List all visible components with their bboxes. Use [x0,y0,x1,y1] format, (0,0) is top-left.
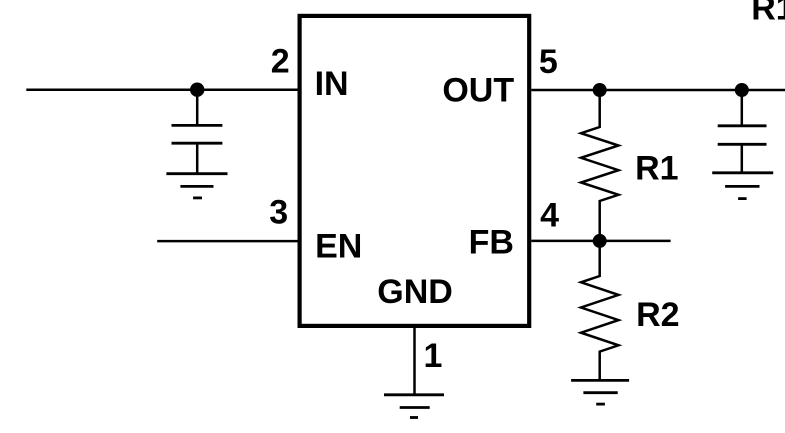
svg-text:3: 3 [269,194,288,232]
svg-text:EN: EN [315,227,362,265]
svg-text:5: 5 [539,43,558,81]
svg-text:4: 4 [540,197,559,235]
svg-text:OUT: OUT [442,71,514,109]
svg-text:2: 2 [271,42,290,80]
svg-text:R2: R2 [636,296,679,334]
svg-text:1: 1 [424,337,443,375]
svg-text:R1: R1 [751,0,785,27]
svg-text:FB: FB [469,224,514,262]
svg-text:R1: R1 [635,149,678,187]
svg-text:GND: GND [377,273,453,311]
svg-text:IN: IN [315,65,349,103]
